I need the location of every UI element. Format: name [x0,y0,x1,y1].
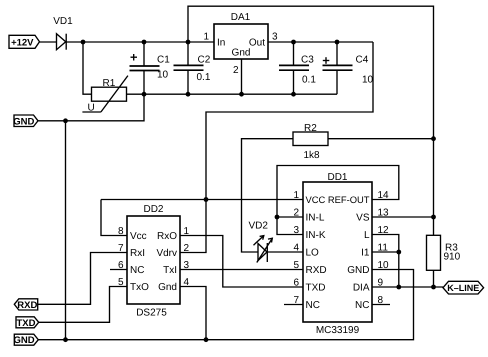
svg-text:In: In [217,38,225,49]
junction node at C2 top [186,40,191,45]
svg-text:IN-K: IN-K [306,230,326,241]
svg-text:1: 1 [203,32,209,43]
svg-text:NC: NC [306,300,320,311]
resistor R2 [293,123,328,161]
capacitor C1 [130,42,171,94]
svg-text:6: 6 [293,278,299,289]
svg-text:8: 8 [118,226,124,237]
tag TXD [16,317,39,329]
wire DD2 NC pin6 stub [110,269,127,271]
diode VD1 [53,16,73,50]
capacitor C2 [174,42,211,94]
svg-text:RXD: RXD [306,265,327,276]
svg-text:GND: GND [13,335,34,346]
svg-text:REF-OUT: REF-OUT [328,194,370,205]
svg-text:R1: R1 [103,78,116,89]
capacitor C3 [279,42,316,94]
svg-text:L: L [364,230,370,241]
svg-text:RxO: RxO [157,231,177,242]
svg-text:C3: C3 [301,55,314,66]
svg-text:2: 2 [184,243,190,254]
svg-text:MC33199: MC33199 [316,325,360,336]
wire GND vertical riser [65,121,67,340]
wire R1 to ground rail [127,93,145,95]
svg-text:Gnd: Gnd [158,282,177,293]
svg-text:GND: GND [347,265,369,276]
capacitor C4 [323,42,374,94]
wire LED cathode to DD1 LO pin4 [267,251,303,253]
wire R2 right terminal to +12V bus [328,138,434,140]
svg-text:LO: LO [306,248,320,259]
wire TXD tag to DD2 TxO [39,287,127,323]
wire R2 left terminal down to LED anode [242,139,294,252]
resistor R3 [427,235,461,270]
svg-text:0.1: 0.1 [197,72,211,83]
wire DD1 I1 pin11 [372,251,399,253]
junction node C1 bottom [142,92,147,97]
svg-text:TXD: TXD [17,318,36,329]
junction node DIA at L tie [396,285,401,290]
svg-text:0.1: 0.1 [302,75,316,86]
svg-text:NC: NC [355,300,369,311]
svg-text:VCC: VCC [306,194,326,205]
chip DD1 MC33199 [293,172,389,336]
svg-text:C4: C4 [356,55,369,66]
wire DD1 VS pin13 to bus [372,216,434,218]
junction node at C1 top [142,40,147,45]
svg-text:K–LINE: K–LINE [447,283,479,293]
svg-text:TXD: TXD [306,283,326,294]
junction node at R1 branch [81,40,86,45]
junction node C3 top [291,40,296,45]
svg-text:DIA: DIA [353,283,370,294]
power tag +12V [9,35,40,48]
varistor R1 [82,76,128,114]
wire +12V tag to VD1 anode [40,41,57,43]
svg-text:VS: VS [356,213,370,224]
svg-text:+12V: +12V [11,38,34,49]
junction node +5V [204,197,209,202]
svg-text:DD1: DD1 [327,172,347,183]
wire DD1 IN-L pin2 [277,216,303,218]
junction node VS at bus [431,215,436,220]
svg-text:DA1: DA1 [231,12,251,23]
wire REF-OUT loop to IN-L and IN-K [277,166,399,235]
wire branch down to varistor R1 [83,42,92,94]
wire DD2 RxO to DD1 TXD [180,236,303,288]
junction node L-I1 tie [396,250,401,255]
svg-text:I1: I1 [361,248,370,259]
svg-text:10: 10 [378,260,390,271]
LED VD2 [249,221,273,263]
junction node C4 top [335,40,340,45]
tag GND lower [13,334,38,346]
svg-text:1: 1 [293,190,299,201]
wire DD2 Vcc riser [101,200,127,236]
wire DD2 TxI to DD1 RXD [180,269,303,271]
svg-text:Vcc: Vcc [130,231,147,242]
svg-text:DS275: DS275 [136,308,167,319]
junction node R2 right at bus [431,136,436,141]
svg-text:910: 910 [444,252,461,263]
svg-text:Vdrv: Vdrv [156,248,177,259]
svg-text:C1: C1 [157,55,170,66]
svg-text:2: 2 [233,65,239,76]
wire +5V line to DD2 Vcc and DD1 VCC [101,199,303,201]
svg-text:TxO: TxO [130,282,149,293]
svg-text:VD2: VD2 [249,221,269,232]
svg-text:10: 10 [362,75,374,86]
regulator DA1 [203,12,278,76]
svg-text:C2: C2 [198,55,211,66]
junction node GND riser top [63,118,68,123]
wire DD1 NC pin7 stub [284,304,303,306]
wire DA1 output rail [268,41,373,43]
wire DA1 gnd pin to ground rail [241,59,243,94]
tag K-LINE [443,281,484,294]
junction node IN-L tie [275,215,280,220]
junction node DIA at R3 [431,285,436,290]
svg-text:5: 5 [293,260,299,271]
svg-text:R2: R2 [304,123,317,134]
svg-text:Gnd: Gnd [232,48,251,59]
wire VD1 cathode to DA1 input (+12V rail) [66,41,214,43]
junction node C3 bottom [291,92,296,97]
wire +5V feed from DA1 out to logic [206,42,373,200]
svg-text:Out: Out [249,38,265,49]
wire GND tag to ground rail [38,94,144,121]
svg-text:10: 10 [157,70,169,81]
wire ground rail [144,93,337,95]
svg-text:DD2: DD2 [143,204,163,215]
svg-text:RxI: RxI [130,248,145,259]
svg-text:4: 4 [293,243,299,254]
tag RXD [14,299,37,311]
chip DD2 DS275 [118,204,190,319]
wire DD1 DIA pin9 to K-LINE [372,286,443,288]
svg-text:IN-L: IN-L [306,213,325,224]
svg-text:U: U [88,103,95,114]
svg-text:1k8: 1k8 [304,150,321,161]
wire ground bus bottom [38,270,413,340]
junction node DD2 gnd at bus [204,337,209,342]
junction node DA1 gnd [239,92,244,97]
tag GND upper [13,115,38,127]
wire R3 bottom to K-line [433,270,435,287]
svg-text:RXD: RXD [17,300,37,311]
wire DD2 Vdrv feed [180,200,206,253]
wire DD1 L pin12 to I1 pin11 [372,235,399,288]
svg-text:TxI: TxI [163,265,177,276]
junction node gnd riser bottom [63,337,68,342]
svg-text:GND: GND [13,116,34,127]
wire RXD tag to DD2 RxI [38,253,127,305]
svg-text:VD1: VD1 [53,16,73,27]
wire DD2 Gnd drop to bus [180,287,206,340]
junction node C2 bottom [186,92,191,97]
wire top bus from +12V rail [188,6,434,235]
svg-text:NC: NC [130,265,144,276]
svg-text:3: 3 [272,32,278,43]
wire DD1 NC pin8 stub [372,304,390,306]
